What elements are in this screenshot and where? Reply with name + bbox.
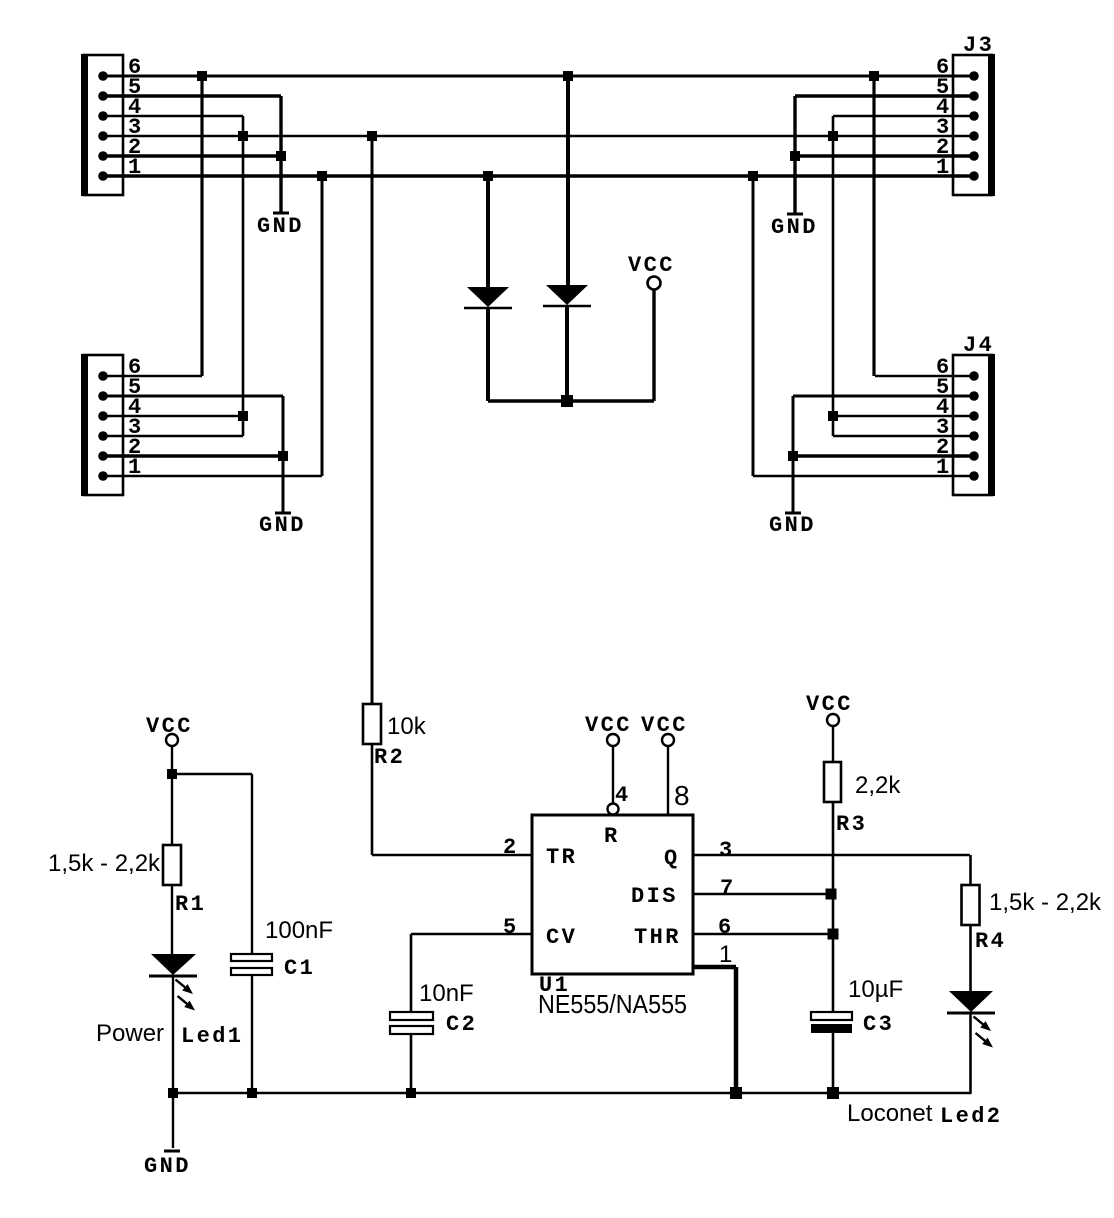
svg-text:1,5k - 2,2k: 1,5k - 2,2k [48,850,161,877]
svg-text:C2: C2 [446,1012,477,1037]
svg-text:10µF: 10µF [848,976,903,1003]
svg-text:2,2k: 2,2k [855,772,901,799]
svg-text:R: R [604,824,620,849]
svg-text:GND: GND [259,513,306,538]
svg-text:Q: Q [664,846,680,871]
svg-text:VCC: VCC [806,692,853,717]
svg-text:8: 8 [674,780,690,811]
svg-text:100nF: 100nF [265,917,333,944]
svg-text:CV: CV [546,925,577,950]
svg-text:10k: 10k [387,713,427,740]
svg-text:5: 5 [503,915,519,940]
svg-text:VCC: VCC [585,713,632,738]
svg-text:Led2: Led2 [940,1104,1002,1129]
svg-text:R4: R4 [975,929,1006,954]
svg-text:J3: J3 [963,33,994,58]
svg-text:Led1: Led1 [181,1024,243,1049]
svg-text:2: 2 [503,835,519,860]
svg-text:GND: GND [257,214,304,239]
svg-text:Power: Power [96,1020,164,1047]
svg-text:GND: GND [144,1154,191,1179]
svg-text:7: 7 [720,876,736,901]
svg-text:J4: J4 [963,333,994,358]
svg-text:GND: GND [769,513,816,538]
svg-text:GND: GND [771,215,818,240]
svg-text:3: 3 [719,838,735,863]
svg-text:R2: R2 [374,745,405,770]
svg-text:1,5k - 2,2k: 1,5k - 2,2k [989,889,1102,916]
svg-text:C3: C3 [863,1012,894,1037]
svg-text:DIS: DIS [631,884,678,909]
svg-text:6: 6 [718,915,734,940]
svg-text:4: 4 [615,783,631,808]
svg-text:TR: TR [546,845,577,870]
svg-text:R1: R1 [175,892,206,917]
svg-text:VCC: VCC [628,253,675,278]
svg-text:Loconet: Loconet [847,1100,933,1127]
svg-text:1: 1 [719,941,732,968]
svg-text:C1: C1 [284,956,315,981]
svg-text:NE555/NA555: NE555/NA555 [538,989,687,1019]
svg-text:R3: R3 [836,812,867,837]
svg-text:10nF: 10nF [419,980,474,1007]
svg-text:THR: THR [634,925,681,950]
